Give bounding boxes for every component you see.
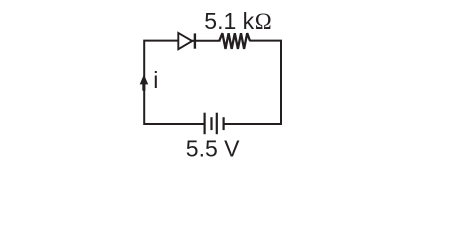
current arrow i (arrowhead) <box>140 75 149 91</box>
battery plate long right <box>216 113 218 135</box>
battery plate short right <box>223 117 225 130</box>
resistor 5.1 kOhm zigzag <box>219 33 250 49</box>
svg-text:i: i <box>153 67 158 93</box>
wire right loop (top-right and bottom-right corners) <box>224 41 281 124</box>
battery plate short left <box>210 117 212 130</box>
diode <box>178 33 192 49</box>
svg-text:5.5 V: 5.5 V <box>186 136 240 162</box>
diode cathode bar <box>194 33 196 48</box>
battery plate long left <box>204 113 206 135</box>
wire left loop (top-left and bottom-left corners) <box>144 41 204 124</box>
wire diode cathode to resistor <box>192 40 221 42</box>
svg-text:5.1 kΩ: 5.1 kΩ <box>204 8 271 34</box>
